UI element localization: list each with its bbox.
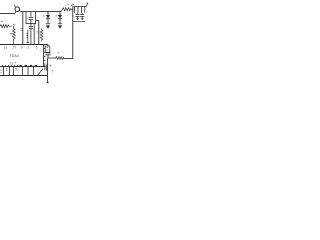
bottom rail: [0, 75, 48, 77]
IC U1 box right edge: [43, 45, 45, 67]
wire down at x38.8: [38, 21, 40, 45]
node dot: [14, 24, 15, 25]
long vertical wire bottom: [47, 58, 49, 83]
transformer T1 coil top-right: [71, 3, 88, 13]
resistor R4 horizontal middle-right: [51, 57, 65, 60]
electrolytic cap C8: [45, 65, 54, 72]
IC pin stubs right: [44, 49, 46, 65]
diode D2: [58, 11, 62, 23]
resistor R3 horizontal top-right: [62, 8, 74, 11]
svg-text:6: 6: [36, 46, 38, 50]
capacitor C5 under coil: [75, 13, 79, 20]
capacitor/ground below D2: [58, 24, 63, 29]
svg-text:27: 27: [13, 46, 17, 50]
wire diagonal: [37, 69, 43, 76]
IC pin ticks top row: [3, 65, 18, 67]
capacitor box C1: [26, 12, 36, 24]
transistor Q1: [14, 5, 21, 14]
svg-text:47: 47: [4, 46, 8, 50]
IC box bottom edge: [0, 66, 46, 68]
resistor R5 vertical middle: [36, 28, 43, 41]
label D1: [43, 15, 45, 16]
svg-text:2: 2: [28, 46, 30, 50]
wire end tick: [46, 82, 49, 84]
right rail: [72, 7, 74, 59]
resistor R1 horizontal left: [0, 25, 12, 28]
diode D1: [46, 11, 50, 23]
wire corner bottom-right: [64, 58, 73, 60]
capacitor/ground below D1: [46, 24, 51, 29]
label bottom-left: [0, 71, 2, 73]
label R1: [1, 20, 6, 22]
wire from box to node: [36, 20, 39, 22]
svg-text:8: 8: [21, 46, 23, 50]
capacitor C7: [45, 45, 50, 59]
capacitor C6 under coil: [80, 13, 84, 20]
wire input left: [0, 13, 15, 15]
label D2: [55, 15, 57, 17]
capacitor C2 middle: [29, 24, 33, 45]
wire joining caps: [73, 20, 85, 22]
wire middle: [33, 24, 35, 45]
resistor R2 vertical left: [13, 26, 16, 44]
label R4: [58, 52, 60, 53]
IC pin wires bottom: [4, 67, 34, 76]
svg-text:TDA4: TDA4: [10, 54, 19, 58]
label R3: [65, 4, 69, 6]
label pins bottom: [6, 69, 18, 70]
IC pin numbers top: [4, 46, 38, 50]
svg-text:11 7: 11 7: [10, 61, 16, 65]
label cluster: [21, 29, 23, 31]
pin blobs bottom edge: [19, 64, 37, 66]
wire emitter down: [22, 12, 24, 45]
node rail y44.5: [0, 44, 48, 46]
label R2: [10, 34, 12, 35]
middle cluster: coil L1: [26, 30, 29, 43]
top rail: [21, 11, 62, 13]
